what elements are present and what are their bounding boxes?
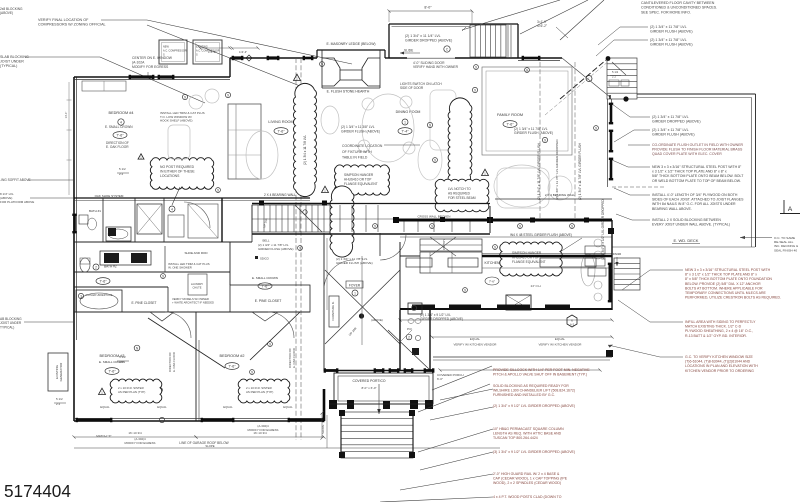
svg-text:9: 9 — [269, 342, 271, 346]
svg-text:W4 X 48 STEEL GIRDER FLUSH (AB: W4 X 48 STEEL GIRDER FLUSH (ABOVE) — [510, 233, 572, 237]
svg-text:(2) 1 3/4" x 11 7/8" LVL GIRDE: (2) 1 3/4" x 11 7/8" LVL GIRDER FLUSH — [537, 142, 541, 200]
svg-text:3: 3 — [80, 294, 82, 298]
svg-text:WITH 8d NAILS IN 8" O.C. FOR A: WITH 8d NAILS IN 8" O.C. FOR ALL JOISTS … — [652, 202, 736, 206]
equal labels bedrooms — [100, 405, 293, 409]
bedroom cloud 1 — [99, 379, 162, 403]
svg-text:QUAD COVER PLATE WITH ELEC. CO: QUAD COVER PLATE WITH ELEC. COVER — [652, 152, 722, 156]
svg-text:FLANGE EQUIVALENT: FLANGE EQUIVALENT — [512, 260, 546, 264]
svg-text:5/8" THICK BOTTOM PLATE ONTO B: 5/8" THICK BOTTOM PLATE ONTO BEAM BELOW.… — [652, 174, 744, 178]
leader top right 3 — [560, 0, 604, 40]
svg-text:8'-0": 8'-0" — [424, 6, 432, 10]
svg-text:HOOK SHELF (ABOVE): HOOK SHELF (ABOVE) — [160, 119, 193, 123]
powder room — [388, 303, 430, 370]
svg-text:VERIFY W/ KITCHEN VENDOR: VERIFY W/ KITCHEN VENDOR — [539, 343, 583, 347]
window family top 1 — [522, 56, 541, 60]
portico left wall — [323, 389, 326, 421]
deck top edge — [637, 94, 756, 247]
svg-text:SOLID BLOCKING AS REQUIRED REA: SOLID BLOCKING AS REQUIRED READY FOR — [493, 384, 569, 388]
svg-text:LOCATIONS IN PLAN AND ELEVATIO: LOCATIONS IN PLAN AND ELEVATION WITH — [685, 364, 758, 368]
living small circles — [182, 92, 307, 214]
family tray ceiling — [482, 67, 572, 155]
svg-text:+ WHITE ARCHITECT IF NEEDED: + WHITE ARCHITECT IF NEEDED — [172, 301, 214, 305]
note coordinate flush outlet — [628, 143, 744, 156]
bedroom4 label — [109, 111, 134, 125]
svg-text:BEARING WALL ABOVE.: BEARING WALL ABOVE. — [652, 207, 692, 211]
svg-text:DN/2R: DN/2R — [613, 252, 621, 256]
butler counters — [400, 237, 612, 273]
svg-text:7'-6": 7'-6" — [116, 133, 124, 137]
svg-text:7'-6": 7'-6" — [489, 280, 495, 284]
svg-text:VERIFY FINAL LOCATION OF: VERIFY FINAL LOCATION OF — [38, 18, 89, 22]
bedroom2 dots — [250, 342, 273, 375]
svg-text:2 X 4 BEARING WALL: 2 X 4 BEARING WALL — [264, 193, 296, 197]
svg-text:4: 4 — [120, 120, 122, 124]
svg-text:(T)6-61044, (T)8-63044, (T)(2): (T)6-61044, (T)8-63044, (T)(2)61044 AND — [685, 360, 751, 364]
note lvl flush 1 — [598, 25, 693, 45]
cloud chain center text — [460, 147, 464, 175]
svg-text:9: 9 — [429, 123, 431, 127]
foyer grid line — [348, 256, 362, 345]
svg-text:9: 9 — [475, 65, 477, 69]
pine closet 2 — [230, 276, 310, 321]
svg-text:GIRDER FLUSH (ABOVE): GIRDER FLUSH (ABOVE) — [652, 133, 695, 137]
svg-text:2'-0" HIGH GUARD RAIL W/ 2 x 4: 2'-0" HIGH GUARD RAIL W/ 2 x 4 BASE & — [493, 472, 560, 476]
cloud text vertical — [303, 135, 307, 165]
window top mid 1 — [232, 56, 244, 60]
svg-text:9: 9 — [434, 158, 436, 162]
cloud chain center — [448, 98, 472, 189]
svg-text:TUSCAN TOP 800.264.4424: TUSCAN TOP 800.264.4424 — [493, 436, 538, 440]
svg-text:PROVIDE FLUSH TO FINISH FLOOR: PROVIDE FLUSH TO FINISH FLOOR MATERIAL B… — [652, 148, 743, 152]
portico posts — [329, 400, 433, 409]
window bottom 1 — [76, 418, 113, 422]
svg-text:CONDITIONED & UNCONDITIONED SP: CONDITIONED & UNCONDITIONED SPACES. — [641, 6, 717, 10]
wall right of fireplace — [385, 57, 389, 59]
svg-text:E. SMALL CROWN: E. SMALL CROWN — [252, 276, 278, 280]
note lights switch — [400, 82, 442, 90]
note cantilevered — [641, 1, 717, 14]
svg-text:WOOD), 2 x 2 SPINDLES (CEDAR W: WOOD), 2 x 2 SPINDLES (CEDAR WOOD) — [493, 481, 561, 485]
svg-text:FOYER: FOYER — [349, 283, 361, 287]
porch dim — [438, 368, 601, 371]
slope arrow — [205, 444, 214, 448]
svg-text:GENERATOR: GENERATOR — [59, 362, 63, 382]
svg-text:(2) 1 3/4" x 11 7/8" LVL GIRDE: (2) 1 3/4" x 11 7/8" LVL GIRDER DROPPED — [555, 139, 559, 200]
window bottom 2 — [201, 418, 235, 422]
svg-text:9: 9 — [299, 246, 301, 250]
bearing wall label 2 — [495, 193, 612, 199]
stair walls — [252, 204, 330, 235]
dim top small — [537, 20, 568, 38]
svg-text:BELL: BELL — [262, 239, 269, 243]
svg-text:8'-0" x 6'-0": 8'-0" x 6'-0" — [361, 386, 376, 390]
svg-text:2 2: 2 2 — [119, 360, 124, 364]
bedroom3 circle — [134, 345, 140, 351]
vertical girder text 2 — [578, 142, 582, 200]
wall right family — [608, 95, 612, 187]
attic stairs — [470, 25, 511, 57]
svg-text:5 1/2: 5 1/2 — [119, 167, 126, 171]
shower note — [168, 262, 214, 305]
svg-text:DINING ROOM: DINING ROOM — [396, 110, 421, 114]
svg-text:EQUAL: EQUAL — [283, 405, 293, 409]
svg-text:AS PER PLAN (TYP): AS PER PLAN (TYP) — [246, 390, 273, 394]
svg-text:GIRDER FLUSH (ABOVE): GIRDER FLUSH (ABOVE) — [341, 129, 380, 133]
svg-text:9: 9 — [321, 62, 323, 66]
svg-text:SHOE AND ROD: SHOE AND ROD — [184, 251, 208, 255]
existing generator box — [48, 353, 68, 391]
fireplace label hearth — [327, 90, 370, 94]
svg-text:SD/CO: SD/CO — [260, 257, 270, 261]
left notes mid — [0, 178, 74, 204]
family faint furniture — [418, 90, 572, 208]
svg-text:-ING SOFFIT ABOVE: -ING SOFFIT ABOVE — [0, 178, 31, 182]
svg-text:KOHLER UNDERTONE: KOHLER UNDERTONE — [86, 294, 113, 297]
note left blocking — [0, 55, 205, 103]
svg-text:HHUS410 OR TOP: HHUS410 OR TOP — [344, 177, 371, 181]
living room label — [268, 120, 293, 134]
svg-text:9: 9 — [494, 245, 496, 249]
svg-text:VERIFY MODELS W/ OWNER: VERIFY MODELS W/ OWNER — [172, 297, 209, 301]
svg-text:EQUAL: EQUAL — [100, 405, 110, 409]
note lvl girder b2 — [420, 450, 575, 470]
note steel post r — [612, 160, 744, 183]
bedroom4 notes — [160, 111, 205, 123]
stair fraction — [609, 70, 629, 86]
svg-text:VERIFY HAND WITH OWNER: VERIFY HAND WITH OWNER — [413, 65, 459, 69]
cross wall text — [418, 215, 451, 219]
egress note 2 — [248, 424, 279, 432]
svg-text:COMPRESSORS W/ ZONING OFFICIAL: COMPRESSORS W/ ZONING OFFICIAL — [38, 23, 106, 27]
svg-text:1: 1 — [404, 120, 406, 124]
match x — [96, 434, 111, 438]
fireplace label ledge — [326, 42, 375, 46]
svg-text:E. OAK FLOOR: E. OAK FLOOR — [292, 348, 296, 368]
svg-text:KITCHEN VENDOR PRIOR TO ORDERI: KITCHEN VENDOR PRIOR TO ORDERING — [685, 369, 754, 373]
svg-text:OR WELD BOTTOM PLATE TO TOP OF: OR WELD BOTTOM PLATE TO TOP OF BEAM BELO… — [652, 179, 741, 183]
deck stairs right — [614, 258, 640, 290]
svg-text:9: 9 — [184, 95, 186, 99]
svg-text:OAK SHOE SYSTEM: OAK SHOE SYSTEM — [95, 194, 124, 198]
svg-text:BOLTS AT BOTTOM. WHERE APPLIC: BOLTS AT BOTTOM. WHERE APPLICABLE FOR — [685, 286, 763, 290]
window bottom 3 — [288, 418, 325, 422]
svg-text:EVERY JOIST UNDER WALL ABOVE.: EVERY JOIST UNDER WALL ABOVE. (TYPICAL) — [652, 223, 730, 227]
note sliding door — [413, 61, 459, 69]
bedroom4 direction — [106, 141, 129, 149]
svg-text:CROSS WALL BROKEN: CROSS WALL BROKEN — [418, 215, 451, 219]
window diamond — [246, 55, 252, 61]
svg-text:EQUAL: EQUAL — [157, 405, 167, 409]
dim bedroom 1 — [72, 431, 197, 439]
window bottom mid — [159, 417, 164, 422]
svg-text:(2) 1 3/4" x 11 7/8" LVL: (2) 1 3/4" x 11 7/8" LVL — [650, 38, 687, 42]
svg-text:FAMILY ROOM: FAMILY ROOM — [497, 113, 523, 117]
window top-left 2 — [158, 75, 175, 79]
svg-text:E. PINE CLOSET: E. PINE CLOSET — [132, 301, 157, 305]
foyer label — [336, 257, 373, 296]
svg-text:9: 9 — [374, 224, 376, 228]
svg-text:FURNISHED AND INSTALLED BY G.C: FURNISHED AND INSTALLED BY G.C. — [493, 393, 555, 397]
note oc to same — [740, 236, 799, 252]
svg-text:FOR STEEL BEAM: FOR STEEL BEAM — [448, 196, 476, 200]
svg-text:PERFORMED, UTILIZE CRESTRON BO: PERFORMED, UTILIZE CRESTRON BOLTS AS REQ… — [685, 296, 781, 300]
family room label — [497, 113, 523, 127]
deck right edge lower — [612, 187, 755, 247]
rotated girder text extra — [555, 139, 559, 200]
svg-text:A.C. COMPRESSOR: A.C. COMPRESSOR — [163, 50, 187, 53]
bearing wall label — [264, 193, 296, 197]
svg-text:7'-6": 7'-6" — [277, 129, 285, 133]
dim 8-0 top — [387, 6, 473, 25]
svg-text:PROVIDE SILLCOCK WITH 1/4" PER: PROVIDE SILLCOCK WITH 1/4" PER FOOT MIN.… — [493, 368, 590, 372]
bath shoe label — [95, 194, 124, 198]
svg-text:SIDES OF EACH JOIST. ATTACHED: SIDES OF EACH JOIST. ATTACHED TO JOIST F… — [652, 198, 744, 202]
svg-text:CHUTE: CHUTE — [193, 285, 202, 289]
svg-text:LOCATIONS: LOCATIONS — [160, 174, 180, 178]
svg-text:SEAL FINISH 40: SEAL FINISH 40 — [774, 248, 797, 252]
w4 girder label — [510, 233, 572, 237]
triangle center 2 — [482, 169, 489, 175]
note lvl girder b1 — [430, 404, 575, 420]
svg-text:1=6'-3": 1=6'-3" — [208, 50, 216, 54]
svg-text:EQUAL: EQUAL — [555, 337, 566, 341]
svg-text:GIRDER FLUSH (ABOVE): GIRDER FLUSH (ABOVE) — [650, 43, 693, 47]
svg-text:SLAB BLOCKING: SLAB BLOCKING — [0, 55, 29, 59]
triangle center — [322, 186, 329, 192]
note plywood joists — [614, 188, 744, 211]
svg-text:7'-6": 7'-6" — [506, 122, 514, 126]
bumpout attic — [389, 24, 518, 58]
wall left exterior — [74, 77, 77, 421]
note infill siding — [618, 300, 756, 338]
svg-text:KITCHEN: KITCHEN — [485, 261, 500, 265]
svg-text:9: 9 — [227, 93, 229, 97]
bath block top wall — [74, 198, 310, 201]
svg-text:7'-6": 7'-6" — [228, 364, 236, 368]
portico outline — [334, 373, 433, 404]
svg-text:24" O.H.: 24" O.H. — [531, 284, 542, 288]
kitchen — [400, 220, 612, 310]
svg-text:(2) 1 3/4" x 11 7/8" LVL GIRDE: (2) 1 3/4" x 11 7/8" LVL GIRDER FLUSH — [578, 142, 582, 200]
svg-text:R-13 BATT & 1/2" GYP. BD. INTE: R-13 BATT & 1/2" GYP. BD. INTERIOR. — [685, 334, 747, 338]
svg-text:EQUAL: EQUAL — [223, 405, 233, 409]
svg-text:MATCH "X": MATCH "X" — [96, 434, 111, 438]
bedroom2 door arc — [268, 312, 294, 338]
slide arrow — [400, 49, 420, 55]
svg-text:CO-ORDINATE FLUSH OUTLET IN FI: CO-ORDINATE FLUSH OUTLET IN FIELD WITH O… — [652, 143, 744, 147]
svg-text:E. MASONRY LEDGE (BELOW): E. MASONRY LEDGE (BELOW) — [326, 42, 375, 46]
svg-text:9: 9 — [162, 274, 164, 278]
svg-text:TEMPORARY CONNECTIONS UNTIL ML: TEMPORARY CONNECTIONS UNTIL MLECS ARE — [685, 291, 767, 295]
svg-text:NEW: NEW — [163, 46, 169, 49]
svg-text:7'-6": 7'-6" — [108, 369, 116, 373]
svg-text:5 1/2: 5 1/2 — [119, 355, 126, 359]
svg-text:1: 1 — [354, 291, 356, 295]
living dining ghosts — [168, 89, 415, 179]
photo id 5174404 — [4, 481, 71, 501]
svg-text:IN. ONE SHOWER: IN. ONE SHOWER — [168, 266, 192, 270]
svg-text:TYPICAL): TYPICAL) — [0, 325, 14, 329]
sliding door wall — [389, 57, 518, 59]
kitchen window right wall — [608, 263, 612, 303]
stair hall rails — [330, 204, 589, 235]
svg-text:7'-6": 7'-6" — [99, 279, 107, 283]
svg-text:CANTILEVERED FLOOR CAVITY BETW: CANTILEVERED FLOOR CAVITY BETWEEN — [641, 1, 715, 5]
note lvl flush 3 — [614, 128, 695, 142]
svg-text:BATH #2: BATH #2 — [104, 265, 117, 269]
svg-text:MODIFY FOR EGRESS: MODIFY FOR EGRESS — [132, 65, 169, 69]
svg-text:AS PER PLAN (TYP): AS PER PLAN (TYP) — [118, 390, 145, 394]
svg-text:4: 4 — [171, 207, 173, 211]
svg-text:(TYPICAL): (TYPICAL) — [0, 64, 17, 68]
svg-text:BATH #1: BATH #1 — [89, 209, 101, 213]
wall diagonal corner — [560, 58, 626, 99]
svg-text:SLIDE: SLIDE — [404, 49, 413, 53]
svg-text:(2) 1 3/4" x 9 1/2" LVL GIRDER: (2) 1 3/4" x 9 1/2" LVL GIRDER DROPPED — [601, 199, 605, 260]
svg-text:LIVING ROOM: LIVING ROOM — [268, 120, 293, 124]
deck stairs upper — [607, 58, 637, 99]
svg-text:COVERED PORTICO: COVERED PORTICO — [352, 379, 385, 383]
bedroom3 label — [99, 354, 125, 374]
svg-text:FLANGE EQUIVALENT: FLANGE EQUIVALENT — [344, 182, 378, 186]
svg-text:2: 2 — [408, 335, 410, 339]
svg-text:NO POST REQUIRED: NO POST REQUIRED — [160, 165, 195, 169]
family corner diagonals — [545, 60, 610, 115]
svg-text:GIRDER FLUSH (ABOVE): GIRDER FLUSH (ABOVE) — [258, 247, 294, 251]
deck window right wall — [609, 103, 613, 181]
note lvl flush 2 — [596, 38, 693, 56]
svg-text:E. OAK FLOOR: E. OAK FLOOR — [172, 352, 176, 372]
note center on window — [132, 56, 173, 77]
svg-text:MATCH EXISTING THICK. 1/2" C-D: MATCH EXISTING THICK. 1/2" C-D — [685, 325, 742, 329]
svg-text:NEW 3 x 3 x 3/16" STRUCTURAL S: NEW 3 x 3 x 3/16" STRUCTURAL STEEL POST … — [652, 165, 742, 169]
svg-text:2: 2 — [95, 265, 97, 269]
svg-text:INSTALL 2 X SOLID BLOCKING BET: INSTALL 2 X SOLID BLOCKING BETWEEN — [652, 218, 721, 222]
svg-text:INFILL AREA WITH SIDING TO PER: INFILL AREA WITH SIDING TO PERFECTLY — [685, 320, 756, 324]
cloud chain foyer — [330, 186, 354, 257]
note girder flush mid2 — [0, 0, 1, 1]
svg-text:SLOPE: SLOPE — [205, 444, 214, 448]
svg-text:E. PINE CLOSET: E. PINE CLOSET — [255, 299, 282, 303]
svg-text:GIRDER DROPPED (ABOVE): GIRDER DROPPED (ABOVE) — [652, 120, 701, 124]
girder dropped label kitchen — [420, 313, 463, 321]
deck label — [672, 238, 700, 244]
door circle top — [444, 46, 450, 52]
portico center arrow — [377, 384, 381, 414]
hexagon kb — [567, 315, 577, 327]
svg-text:INSTALL 4'-0" LENGTH OF 3/4" P: INSTALL 4'-0" LENGTH OF 3/4" PLYWOOD ON … — [652, 193, 738, 197]
note girder dropped attic — [405, 27, 466, 42]
svg-text:IN EITHER OF THESE: IN EITHER OF THESE — [160, 170, 195, 174]
svg-text:7'-6": 7'-6" — [261, 284, 269, 288]
note coordinate fixture — [341, 125, 420, 160]
svg-text:LVL NOTCH TO: LVL NOTCH TO — [448, 187, 471, 191]
breakfast chairs ghost — [581, 239, 602, 301]
leader top right 1 — [462, 0, 560, 30]
svg-text:7'-4": 7'-4" — [401, 129, 409, 133]
bedroom cloud 2 — [238, 379, 290, 403]
fireplace outline — [317, 50, 385, 88]
bedroom wall mid — [196, 312, 199, 421]
svg-text:(2) 1 3/4" x 11 7/8" LVL: (2) 1 3/4" x 11 7/8" LVL — [652, 128, 689, 132]
egress note 1 — [125, 437, 156, 445]
vertical girder text 1 — [537, 142, 541, 200]
note chandelier — [440, 384, 575, 400]
bedroom4 triangle — [138, 154, 144, 160]
svg-text:E. FLUSH STONE HEARTH: E. FLUSH STONE HEARTH — [327, 90, 370, 94]
wall top-left — [74, 77, 230, 80]
portico front wall — [324, 368, 435, 372]
grid dash family 2 — [574, 62, 576, 218]
svg-text:SIMPSON HANGER: SIMPSON HANGER — [344, 173, 374, 177]
svg-text:(ABOVE): (ABOVE) — [0, 11, 13, 15]
tiny dims top wall — [198, 46, 259, 54]
triangle living — [294, 74, 301, 80]
portico step rails — [339, 410, 415, 458]
svg-text:(3) 1 3/4" x 9 1/2" LVL GIRDER: (3) 1 3/4" x 9 1/2" LVL GIRDER DROPPED (… — [493, 450, 575, 454]
svg-text:SEE SPEC. FOR MORE INFO.: SEE SPEC. FOR MORE INFO. — [641, 10, 691, 14]
svg-text:E. WD. DECK: E. WD. DECK — [674, 238, 699, 243]
equal dims kitchen — [430, 335, 613, 346]
svg-text:MODIFY FOR EGRESS: MODIFY FOR EGRESS — [248, 428, 279, 432]
svg-text:9: 9 — [464, 288, 466, 292]
scatter circles — [216, 62, 599, 293]
bedroom3 dots — [158, 388, 163, 393]
wall step up — [229, 58, 231, 77]
simpson cloud 2 — [500, 238, 582, 276]
svg-text:9: 9 — [526, 68, 528, 72]
leader top right 2 — [520, 0, 588, 34]
svg-text:10" HB&G PERMACAST SQUARE COLU: 10" HB&G PERMACAST SQUARE COLUMN — [493, 427, 564, 431]
dn 2r note — [608, 228, 621, 266]
covered porch texts — [437, 373, 464, 381]
svg-text:(2) 1 3/4" x 11 7/8" LVL: (2) 1 3/4" x 11 7/8" LVL — [650, 25, 687, 29]
svg-text:(A-102A: (A-102A — [132, 60, 145, 64]
svg-text:LINE OF GARAGE ROOF BELOW: LINE OF GARAGE ROOF BELOW — [179, 441, 228, 445]
svg-text:9: 9 — [474, 88, 476, 92]
svg-text:FOR PLATFORM ABOVE: FOR PLATFORM ABOVE — [0, 200, 34, 204]
note verify compressors — [38, 18, 352, 90]
portico steps — [341, 412, 413, 458]
simpson cloud 1 — [335, 165, 390, 195]
svg-text:CENTER ON E. WINDOW: CENTER ON E. WINDOW — [132, 56, 173, 60]
svg-text:(2) 1 3/4" x 11 7/8" LVL: (2) 1 3/4" x 11 7/8" LVL — [652, 115, 689, 119]
svg-text:9: 9 — [217, 188, 219, 192]
svg-text:A-2: A-2 — [570, 323, 575, 327]
cloud lvl notch — [435, 179, 489, 212]
svg-text:2 2: 2 2 — [119, 172, 124, 176]
svg-text:SIDE OF DOOR: SIDE OF DOOR — [400, 86, 424, 90]
svg-text:PITCH & APOLLO VALVE SHUT OFF: PITCH & APOLLO VALVE SHUT OFF IN BASEMEN… — [493, 373, 587, 377]
svg-text:2 2: 2 2 — [56, 402, 61, 406]
sofa living — [228, 104, 261, 179]
svg-text:(2) 1 3/4" x 9 1/2" LVL GIRDER: (2) 1 3/4" x 9 1/2" LVL GIRDER DROPPED (… — [493, 404, 575, 408]
svg-text:GIRDER FLUSH (ABOVE): GIRDER FLUSH (ABOVE) — [650, 30, 693, 34]
svg-text:9: 9 — [431, 224, 433, 228]
svg-text:GIRDER DROPPED (ABOVE): GIRDER DROPPED (ABOVE) — [420, 317, 463, 321]
svg-text:BEDROOM #2: BEDROOM #2 — [220, 354, 245, 358]
svg-text:LENGTH AS REQ. WITH ATTIC BASE: LENGTH AS REQ. WITH ATTIC BASE AND — [493, 432, 562, 436]
window seat — [82, 81, 126, 91]
svg-text:AS REQUIRED: AS REQUIRED — [448, 191, 471, 195]
hall bath tub row — [74, 287, 310, 321]
svg-text:6'-0": 6'-0" — [437, 377, 443, 381]
svg-text:9: 9 — [519, 224, 521, 228]
deck stair post — [606, 56, 629, 102]
note wood posts — [380, 495, 562, 502]
svg-text:16'-10 3/4: 16'-10 3/4 — [128, 431, 142, 435]
dim bedroom 2 — [194, 431, 325, 439]
